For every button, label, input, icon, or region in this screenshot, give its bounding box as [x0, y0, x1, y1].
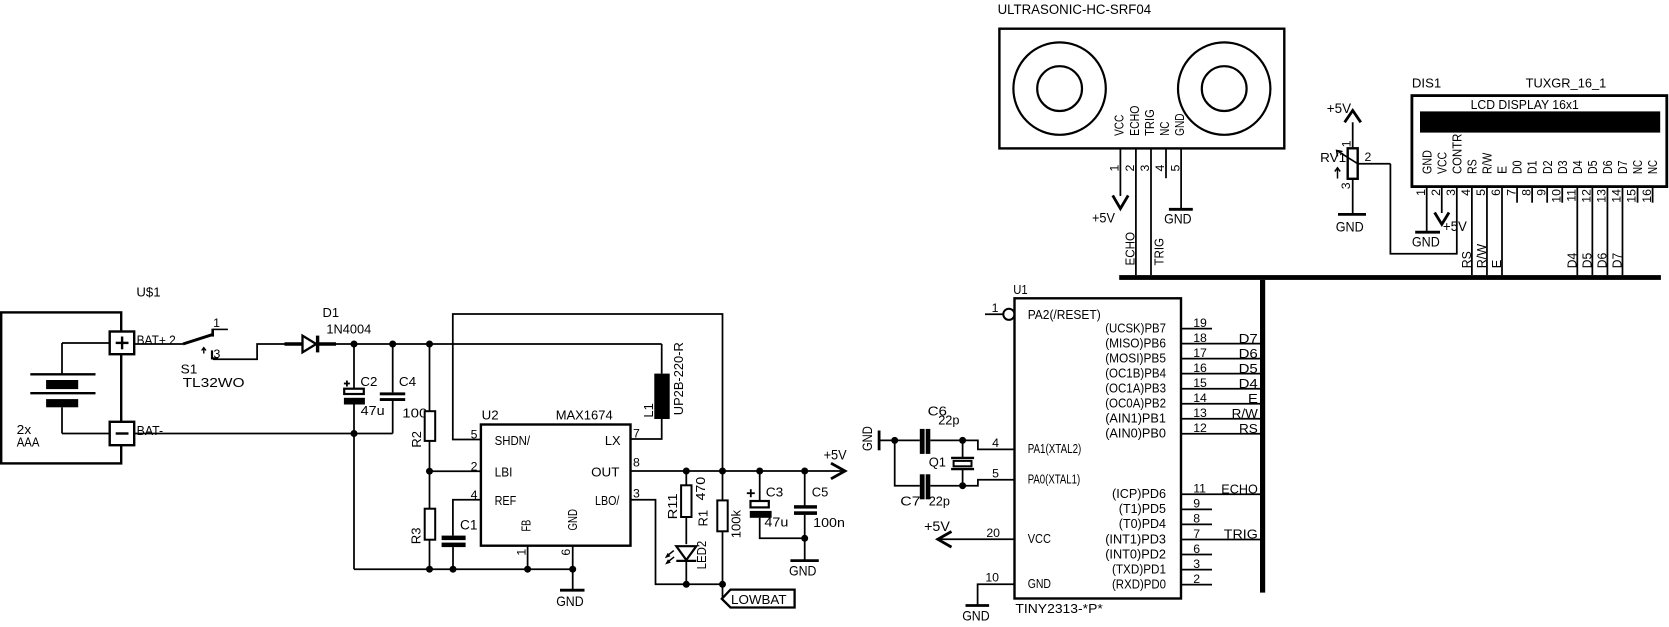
svg-text:D0: D0: [1510, 160, 1525, 174]
svg-text:E: E: [1495, 166, 1510, 174]
svg-text:NC: NC: [1630, 160, 1645, 174]
svg-text:FB: FB: [519, 520, 534, 532]
svg-text:7: 7: [1504, 189, 1518, 196]
svg-text:PA2(/RESET): PA2(/RESET): [1028, 307, 1101, 322]
svg-text:BAT-: BAT-: [137, 423, 164, 438]
svg-text:1: 1: [1108, 165, 1122, 172]
svg-text:2: 2: [471, 459, 478, 473]
svg-text:4: 4: [1153, 165, 1167, 172]
svg-text:1: 1: [992, 301, 999, 315]
svg-text:9: 9: [1534, 189, 1548, 196]
svg-text:R2: R2: [409, 431, 424, 448]
svg-text:LBI: LBI: [495, 464, 513, 479]
svg-text:1N4004: 1N4004: [326, 322, 371, 337]
svg-text:10: 10: [985, 570, 999, 584]
svg-text:CONTR: CONTR: [1449, 134, 1464, 174]
svg-text:3: 3: [1138, 165, 1152, 172]
svg-text:DIS1: DIS1: [1412, 76, 1441, 91]
svg-text:5: 5: [1474, 189, 1488, 196]
svg-text:1: 1: [1414, 189, 1428, 196]
svg-text:GND: GND: [859, 426, 875, 451]
svg-text:4: 4: [471, 488, 478, 502]
svg-text:8: 8: [633, 456, 640, 470]
svg-text:(OC1B)PB4: (OC1B)PB4: [1105, 365, 1166, 380]
svg-text:2: 2: [1365, 150, 1372, 164]
svg-text:(UCSK)PB7: (UCSK)PB7: [1105, 320, 1166, 335]
svg-text:5: 5: [992, 467, 999, 481]
svg-text:(ICP)PD6: (ICP)PD6: [1112, 486, 1166, 501]
svg-text:2: 2: [1123, 165, 1137, 172]
svg-text:14: 14: [1610, 189, 1624, 203]
svg-text:D7: D7: [1610, 253, 1625, 269]
svg-text:R/W: R/W: [1480, 152, 1495, 174]
svg-text:D4: D4: [1565, 253, 1580, 269]
svg-text:E: E: [1248, 391, 1258, 406]
svg-text:47u: 47u: [764, 514, 788, 529]
svg-text:AAA: AAA: [17, 435, 40, 450]
svg-text:+5V: +5V: [924, 518, 950, 534]
svg-text:C1: C1: [460, 517, 478, 532]
svg-text:BAT+ 2: BAT+ 2: [137, 333, 176, 348]
svg-text:RS: RS: [1464, 159, 1479, 174]
svg-text:16: 16: [1640, 189, 1654, 203]
svg-text:1: 1: [213, 316, 220, 330]
svg-text:1: 1: [515, 549, 529, 556]
svg-text:LX: LX: [605, 433, 621, 448]
svg-text:Q1: Q1: [929, 454, 946, 469]
svg-text:GND: GND: [789, 563, 817, 579]
svg-text:3: 3: [1444, 189, 1458, 196]
svg-text:22p: 22p: [929, 493, 950, 508]
svg-text:OUT: OUT: [591, 464, 619, 479]
svg-text:6: 6: [1489, 189, 1503, 196]
svg-text:GND: GND: [1028, 576, 1051, 591]
svg-text:LED2: LED2: [694, 541, 709, 570]
svg-text:LOWBAT: LOWBAT: [731, 592, 787, 607]
svg-text:11: 11: [1565, 189, 1579, 202]
svg-text:3: 3: [1339, 182, 1353, 189]
svg-text:12: 12: [1580, 189, 1594, 203]
svg-text:6: 6: [559, 549, 573, 556]
svg-text:(AIN0)PB0: (AIN0)PB0: [1105, 426, 1166, 441]
svg-text:+5V: +5V: [1443, 218, 1468, 234]
svg-text:L1: L1: [641, 403, 656, 418]
svg-text:22p: 22p: [938, 413, 959, 428]
svg-text:D5: D5: [1580, 253, 1595, 269]
svg-text:RS: RS: [1239, 421, 1258, 436]
svg-text:4: 4: [1459, 189, 1473, 196]
svg-text:D6: D6: [1595, 253, 1610, 269]
svg-text:(MISO)PB6: (MISO)PB6: [1105, 335, 1166, 350]
svg-text:C7: C7: [900, 493, 920, 508]
svg-text:D7: D7: [1615, 160, 1630, 174]
svg-text:(INT0)PD2: (INT0)PD2: [1105, 546, 1166, 561]
svg-text:D6: D6: [1600, 160, 1615, 174]
svg-text:(INT1)PD3: (INT1)PD3: [1105, 531, 1166, 546]
svg-text:D2: D2: [1540, 160, 1555, 174]
svg-text:C3: C3: [766, 485, 784, 500]
svg-text:(T0)PD4: (T0)PD4: [1119, 516, 1166, 531]
svg-text:RS: RS: [1459, 251, 1474, 268]
svg-text:R11: R11: [665, 493, 680, 519]
svg-text:R/W: R/W: [1232, 406, 1259, 421]
svg-text:TRIG: TRIG: [1142, 109, 1157, 136]
svg-text:TL32WO: TL32WO: [183, 375, 245, 390]
svg-text:100n: 100n: [813, 515, 845, 530]
svg-text:LCD DISPLAY 16x1: LCD DISPLAY 16x1: [1471, 97, 1579, 112]
svg-text:D6: D6: [1239, 346, 1258, 361]
svg-text:(OC1A)PB3: (OC1A)PB3: [1105, 381, 1166, 396]
svg-text:470: 470: [693, 477, 708, 501]
svg-text:C5: C5: [812, 485, 829, 500]
svg-text:D5: D5: [1585, 160, 1600, 174]
svg-text:R1: R1: [696, 510, 711, 527]
svg-text:TRIG: TRIG: [1224, 527, 1258, 542]
svg-text:(T1)PD5: (T1)PD5: [1119, 501, 1166, 516]
svg-text:U$1: U$1: [136, 285, 160, 300]
svg-text:ECHO: ECHO: [1122, 232, 1137, 266]
svg-text:TINY2313-*P*: TINY2313-*P*: [1015, 601, 1102, 616]
svg-text:GND: GND: [1412, 233, 1440, 249]
svg-text:GND: GND: [565, 509, 580, 530]
svg-text:(MOSI)PB5: (MOSI)PB5: [1105, 350, 1166, 365]
svg-text:GND: GND: [1172, 113, 1187, 135]
svg-text:RV1: RV1: [1320, 150, 1346, 165]
svg-text:GND: GND: [1336, 219, 1364, 235]
svg-text:8: 8: [1519, 189, 1533, 196]
svg-text:100k: 100k: [729, 509, 744, 538]
svg-text:R/W: R/W: [1474, 243, 1489, 268]
svg-text:ECHO: ECHO: [1127, 106, 1142, 136]
svg-text:GND: GND: [1164, 210, 1192, 226]
svg-text:2: 2: [1429, 189, 1443, 196]
svg-text:VCC: VCC: [1028, 531, 1051, 546]
svg-text:D1: D1: [1525, 160, 1540, 174]
svg-text:SHDN/: SHDN/: [495, 433, 531, 448]
svg-text:ECHO: ECHO: [1221, 482, 1258, 497]
svg-text:47u: 47u: [361, 403, 385, 418]
svg-text:NC: NC: [1645, 160, 1660, 174]
svg-text:U1: U1: [1013, 282, 1027, 297]
svg-text:1: 1: [1340, 140, 1354, 147]
svg-text:ULTRASONIC-HC-SRF04: ULTRASONIC-HC-SRF04: [998, 2, 1152, 17]
svg-text:GND: GND: [556, 593, 584, 609]
svg-text:VCC: VCC: [1112, 115, 1127, 136]
svg-text:GND: GND: [962, 607, 990, 623]
svg-text:(TXD)PD1: (TXD)PD1: [1112, 561, 1166, 576]
svg-text:D5: D5: [1239, 361, 1258, 376]
svg-text:U2: U2: [482, 407, 499, 422]
svg-text:C2: C2: [360, 374, 377, 389]
svg-text:D3: D3: [1555, 160, 1570, 174]
svg-text:4: 4: [992, 436, 999, 450]
svg-text:TRIG: TRIG: [1152, 238, 1167, 266]
svg-text:E: E: [1489, 259, 1504, 268]
svg-text:(AIN1)PB1: (AIN1)PB1: [1105, 411, 1166, 426]
svg-text:TUXGR_16_1: TUXGR_16_1: [1526, 76, 1607, 91]
svg-text:D7: D7: [1239, 331, 1258, 346]
svg-text:D1: D1: [323, 305, 340, 320]
svg-text:REF: REF: [495, 493, 517, 508]
svg-text:20: 20: [986, 526, 1000, 540]
svg-text:D4: D4: [1570, 160, 1585, 174]
svg-text:(RXD)PD0: (RXD)PD0: [1112, 576, 1166, 591]
svg-text:NC: NC: [1157, 121, 1172, 135]
svg-text:LBO/: LBO/: [595, 493, 620, 508]
svg-text:R3: R3: [408, 528, 423, 545]
svg-text:10: 10: [1549, 189, 1563, 203]
svg-text:+5V: +5V: [824, 447, 848, 463]
svg-text:+5V: +5V: [1327, 100, 1352, 116]
svg-text:C4: C4: [399, 374, 416, 389]
svg-text:3: 3: [633, 486, 640, 500]
svg-text:+5V: +5V: [1092, 210, 1116, 226]
svg-text:13: 13: [1595, 189, 1609, 203]
svg-text:MAX1674: MAX1674: [556, 407, 613, 422]
svg-text:PA0(XTAL1): PA0(XTAL1): [1028, 471, 1081, 486]
svg-text:3: 3: [214, 347, 221, 361]
svg-text:UP2B-220-R: UP2B-220-R: [671, 342, 686, 415]
svg-text:GND: GND: [1419, 150, 1434, 174]
svg-text:5: 5: [1168, 165, 1182, 172]
svg-text:15: 15: [1625, 189, 1639, 203]
svg-text:(OC0A)PB2: (OC0A)PB2: [1105, 396, 1166, 411]
svg-text:D4: D4: [1239, 376, 1258, 391]
svg-text:VCC: VCC: [1434, 152, 1449, 174]
svg-text:PA1(XTAL2): PA1(XTAL2): [1028, 441, 1082, 456]
